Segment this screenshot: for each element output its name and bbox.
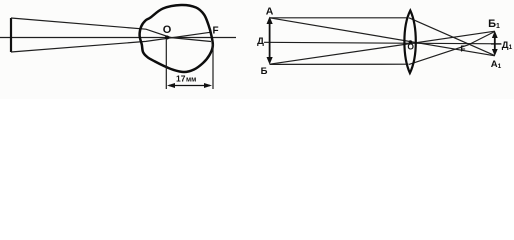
svg-text:F: F xyxy=(212,26,218,37)
ray А through centre O to А1 xyxy=(270,18,495,56)
svg-text:Б: Б xyxy=(261,66,268,77)
dimension extension line left (from O) xyxy=(165,40,167,90)
lens (biconvex) xyxy=(404,11,415,74)
ray А parallel to axis xyxy=(270,17,409,19)
svg-text:Д: Д xyxy=(257,36,264,47)
lens centre dot xyxy=(409,40,413,44)
image arrowhead bottom xyxy=(492,49,498,56)
eye outline xyxy=(140,5,213,72)
ray Б through centre O to Б1 xyxy=(270,31,495,64)
object arrowhead top xyxy=(267,17,273,25)
refracted ray (А) through focus F xyxy=(409,18,495,56)
dimension arrow 17 mm xyxy=(169,85,210,87)
svg-text:Д1: Д1 xyxy=(502,40,513,51)
optical axis (left diagram) xyxy=(0,37,236,39)
ray Б parallel to axis xyxy=(270,63,409,65)
object (distant arrow) xyxy=(10,18,12,52)
svg-text:O: O xyxy=(407,42,414,52)
image arrowhead top xyxy=(492,31,498,38)
svg-text:17мм: 17мм xyxy=(176,74,196,84)
refracted ray (Б) through focus F xyxy=(409,32,495,65)
svg-text:F: F xyxy=(460,44,465,54)
ray from object bottom xyxy=(11,32,211,52)
tick to Д1 xyxy=(491,43,502,45)
ray from object top xyxy=(11,18,211,42)
node point O dot xyxy=(165,36,169,40)
svg-text:А: А xyxy=(266,6,274,18)
svg-text:Б1: Б1 xyxy=(488,18,500,30)
svg-text:А1: А1 xyxy=(491,59,502,70)
object arrowhead bottom xyxy=(267,57,273,65)
dimension extension line right (from retina) xyxy=(212,44,214,89)
object arrow АБ shaft xyxy=(269,20,271,62)
svg-text:O: O xyxy=(163,24,172,36)
image arrow Б1А1 shaft xyxy=(494,35,496,53)
optical axis (lens diagram) xyxy=(264,42,501,44)
